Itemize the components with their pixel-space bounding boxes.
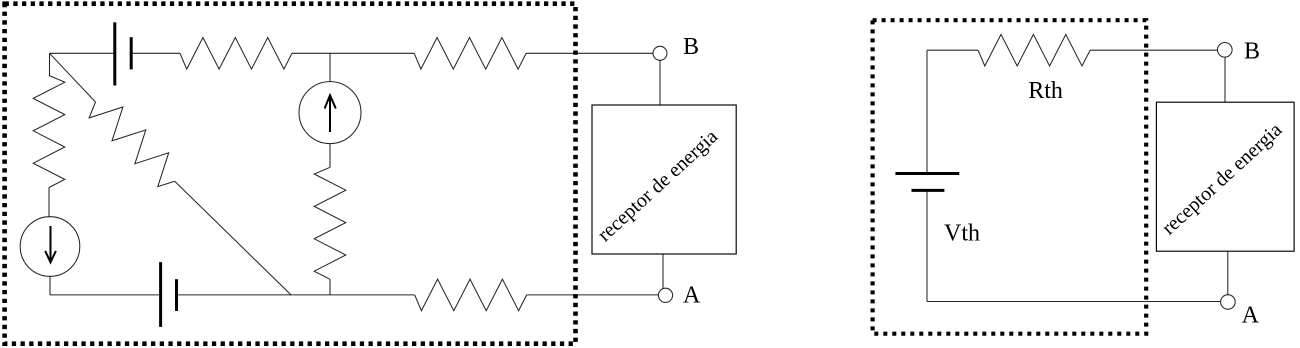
svg-text:Vth: Vth bbox=[944, 220, 980, 246]
svg-text:receptor de energia: receptor de energia bbox=[594, 126, 723, 246]
svg-text:A: A bbox=[683, 282, 701, 308]
svg-text:B: B bbox=[1244, 39, 1260, 65]
svg-text:B: B bbox=[683, 34, 699, 60]
svg-text:A: A bbox=[1242, 303, 1260, 329]
svg-text:receptor de energia: receptor de energia bbox=[1158, 119, 1287, 239]
svg-text:Rth: Rth bbox=[1028, 78, 1063, 104]
